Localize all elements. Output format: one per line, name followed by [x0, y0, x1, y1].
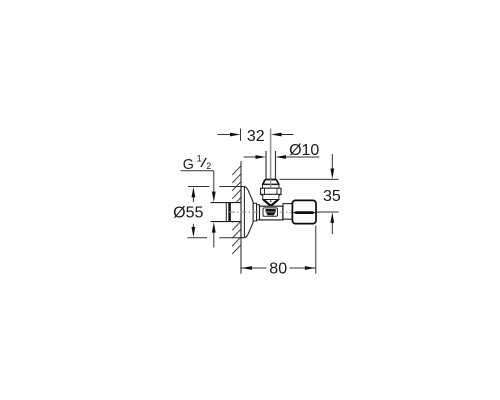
dimension 32	[218, 129, 294, 141]
G1/2 leader	[181, 170, 214, 172]
G1/2 threaded tail	[211, 203, 242, 222]
dimension 35	[280, 154, 339, 234]
tube center line over fitting	[270, 179, 272, 188]
handle	[292, 200, 316, 223]
escutcheon rim	[253, 203, 256, 221]
GROHE logo	[266, 209, 276, 212]
escutcheon (wall flange)	[241, 187, 253, 238]
dimension Ø10	[244, 156, 320, 158]
compression nut	[261, 188, 281, 194]
svg-text:2: 2	[206, 161, 211, 171]
center axis line through stem	[280, 211, 292, 213]
svg-text:32: 32	[247, 128, 265, 145]
svg-text:Ø55: Ø55	[173, 204, 203, 221]
dimension 80	[241, 226, 316, 274]
svg-text:Ø10: Ø10	[289, 142, 319, 159]
escutcheon neck	[257, 205, 260, 220]
valve stem	[283, 204, 292, 220]
supply tube walls	[265, 151, 267, 179]
svg-text:1: 1	[197, 154, 202, 164]
valve body	[260, 206, 283, 220]
bonnet cone V	[263, 200, 279, 207]
bonnet center tick	[270, 200, 271, 202]
center axis line	[229, 211, 326, 213]
svg-text:80: 80	[269, 261, 287, 278]
svg-text:35: 35	[323, 188, 341, 205]
tube center line	[270, 129, 272, 179]
wall hatching	[232, 166, 241, 254]
bonnet band	[261, 194, 281, 199]
logo plate	[263, 208, 277, 216]
fitting band	[263, 185, 279, 189]
handle groove	[293, 211, 316, 214]
dimension Ø55	[187, 187, 240, 238]
wall line	[240, 161, 242, 274]
compression fitting dome	[263, 180, 279, 185]
